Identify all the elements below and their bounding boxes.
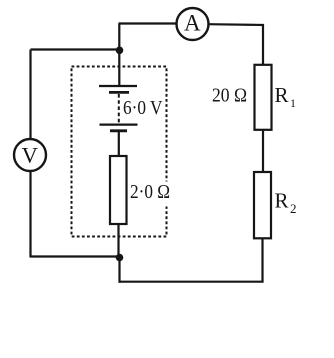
wire: left vertical, voltmeter down to bottom-left corner [29,171,31,258]
dashed link between battery cells [118,94,120,123]
wire: right vertical from R1 up to top [262,25,264,65]
internal resistance r (2.0 ohm) [110,156,127,224]
node: top junction dot [116,47,124,55]
svg-text:A: A [184,10,201,35]
svg-text:V: V [22,143,38,168]
svg-text:6·0 V: 6·0 V [123,97,163,119]
resistor R2 [254,172,271,238]
battery cell 1: short negative plate [109,91,129,94]
wire: bottom-left horizontal to junction node [31,255,120,257]
svg-text:2·0 Ω: 2·0 Ω [130,181,170,203]
battery cell 2: short negative plate [110,129,127,132]
wire: top horizontal, node branch to ammeter [119,22,178,24]
wire: short vertical from bottom node down [118,257,120,283]
battery cell 1: long positive plate [99,85,137,87]
svg-text:R1: R1 [275,83,297,110]
battery cell 2: long positive plate [100,123,138,125]
resistor R1 [255,65,272,130]
ammeter A [177,8,209,40]
wire: left vertical, top section down to voltmeter [29,50,31,140]
wire: internal resistance down to bottom node [117,224,119,257]
wire: bottom horizontal [120,281,264,283]
node: bottom junction dot [116,254,124,262]
wire: battery to internal resistance [118,132,120,157]
dashed boundary box of battery [72,67,167,237]
wire: right vertical between R2 and R1 [262,130,264,173]
wire: top-left horizontal from left branch to node [31,48,120,50]
svg-text:R2: R2 [275,189,297,217]
wire: top horizontal, ammeter to right corner [208,23,264,26]
wire: right vertical from bottom up to R2 [261,238,263,282]
voltmeter V [14,139,46,171]
wire: vertical from top wire through node into battery [118,24,120,86]
svg-text:20 Ω: 20 Ω [212,85,247,107]
label 2.0 ohm [153,182,172,207]
